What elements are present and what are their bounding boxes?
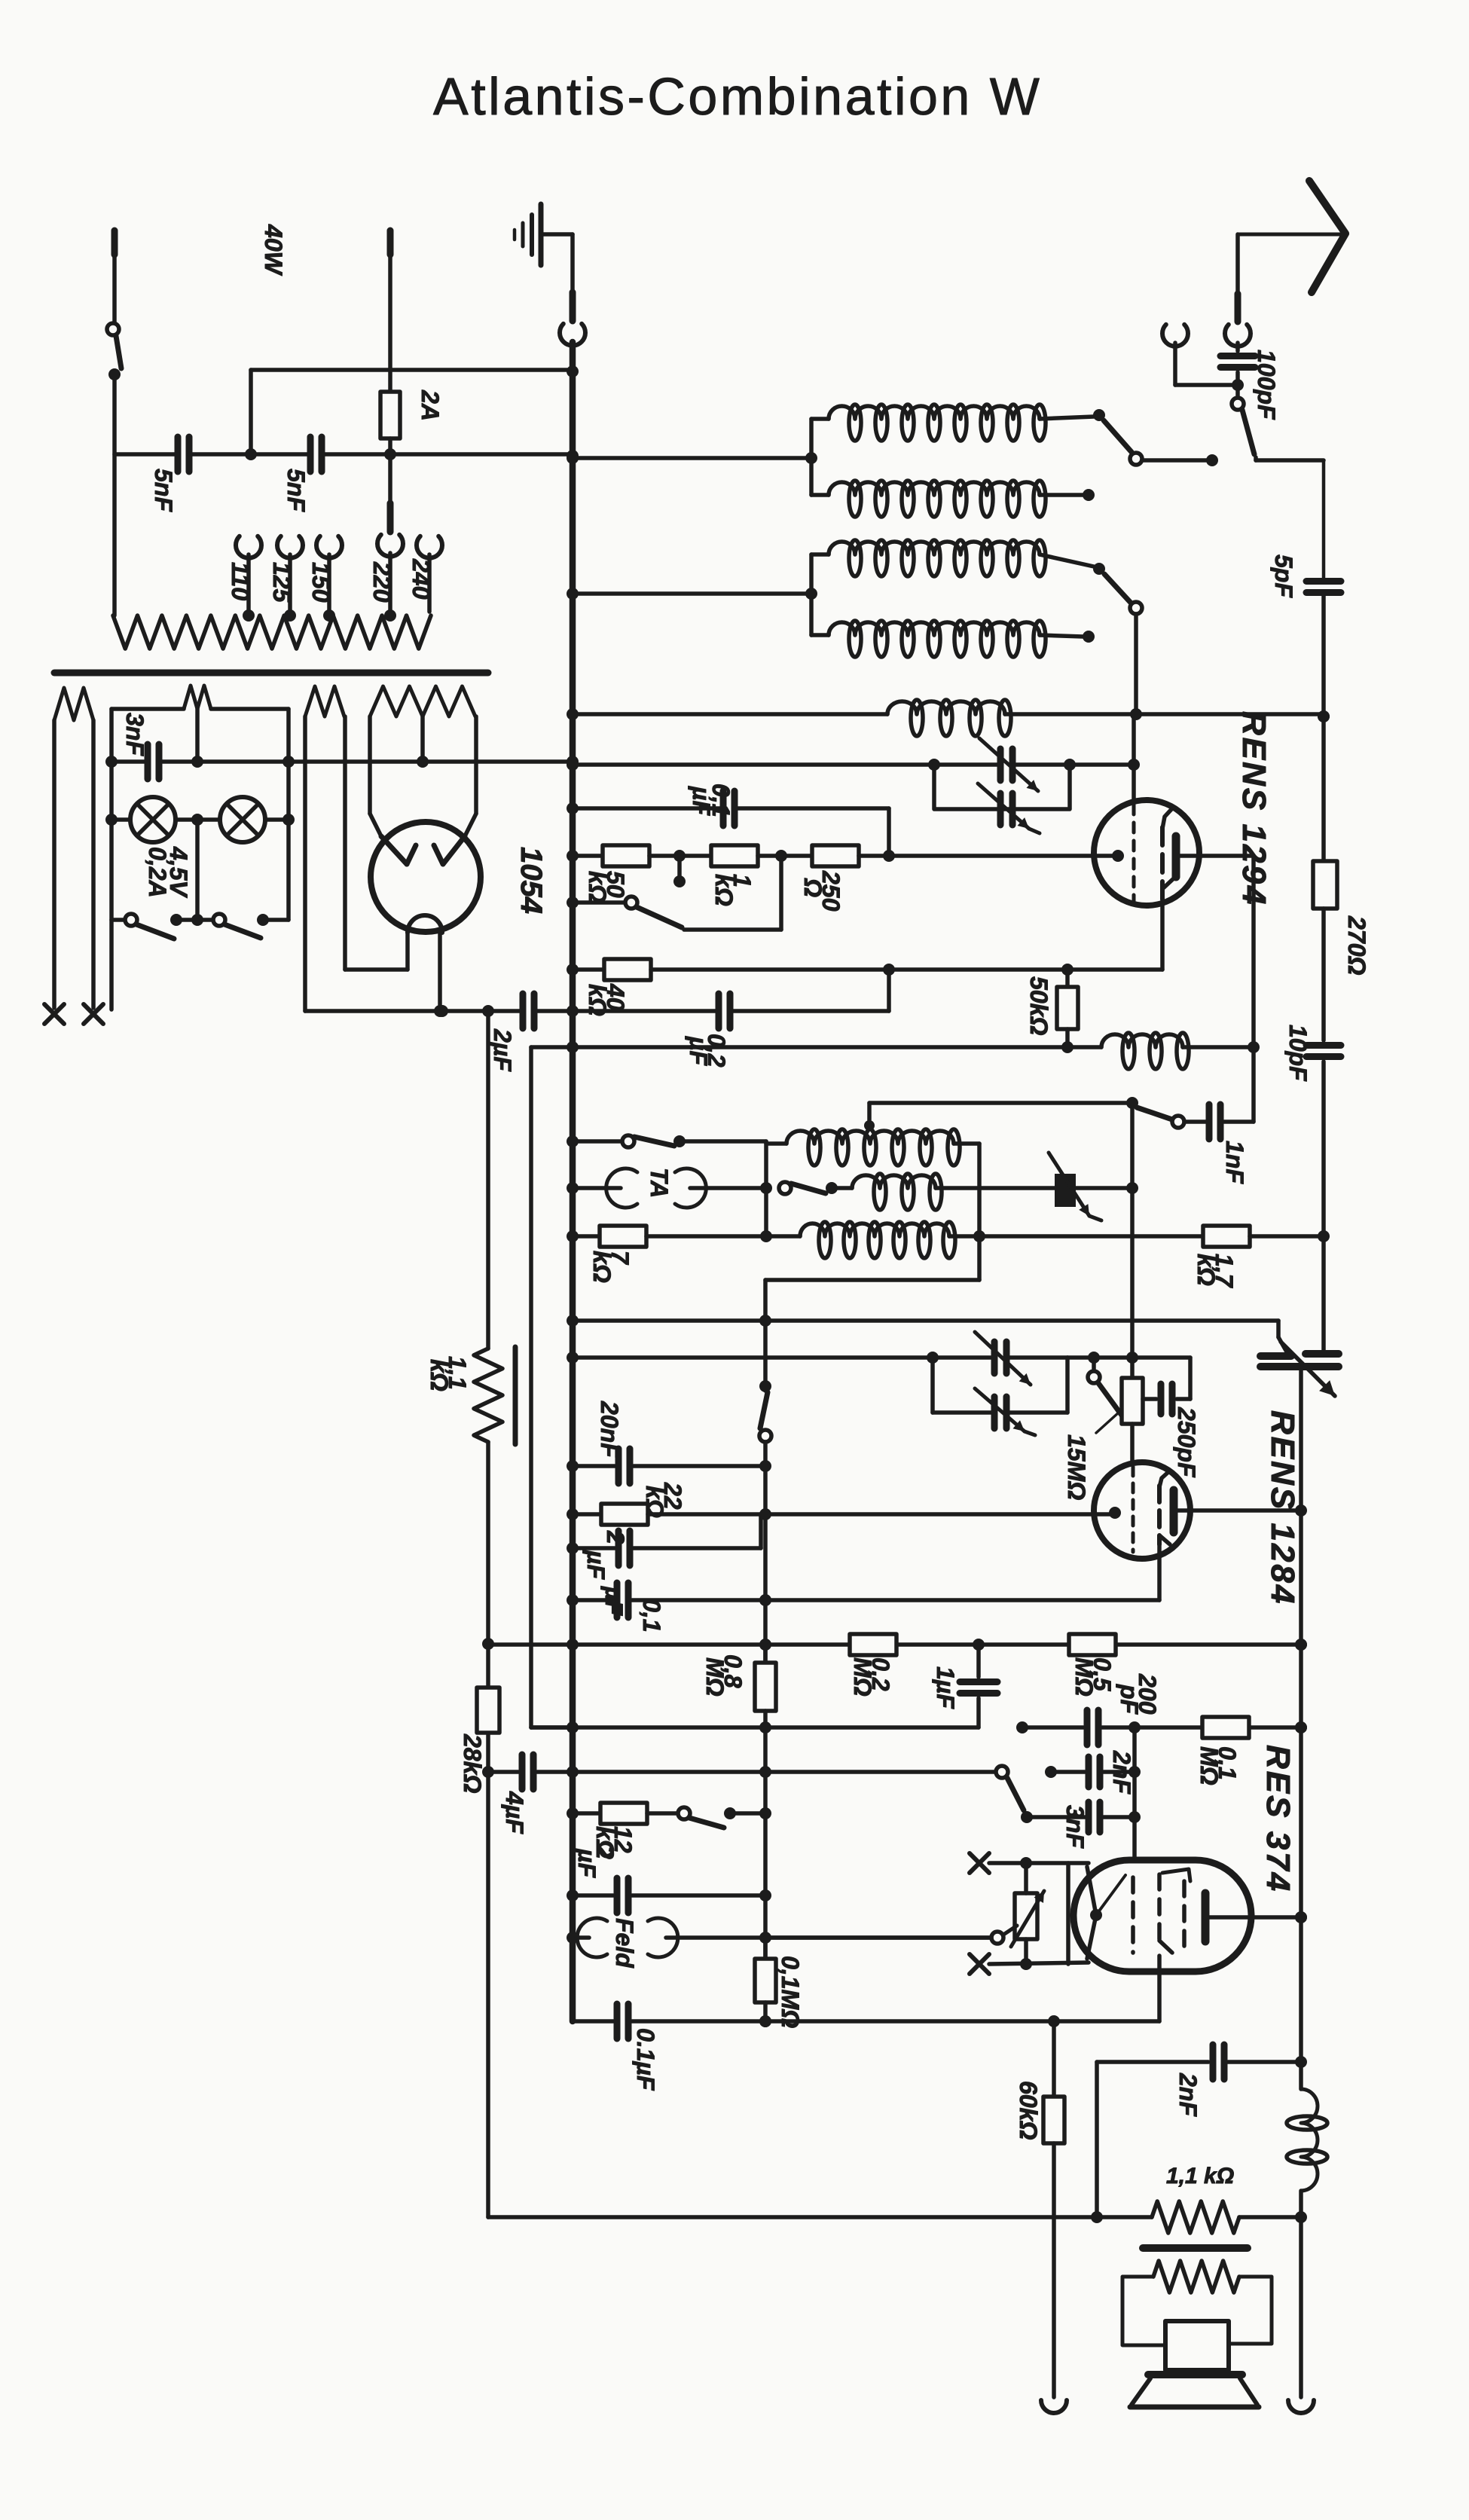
capacitor 3nF [121,713,159,779]
antenna selector switch [1232,398,1254,454]
hum pot slider [991,1926,1017,1944]
capacitor 20nF [596,1401,630,1483]
svg-text:TA: TA [646,1168,673,1198]
tap 150 [307,536,342,622]
wire antenna to right bus [1256,457,1324,579]
tube 1284 screen [1159,1471,1170,1544]
wire row 1518 [766,1141,786,1146]
capacitor 4uF [501,1755,533,1834]
svg-text:1nF: 1nF [1221,1141,1248,1184]
wire row 491 [251,365,579,454]
tuning capacitor gang a [933,1332,1067,1385]
tap 110 [227,536,261,622]
tube 374 grid [1131,1877,1135,1953]
wire row 2293 left [531,1721,979,1733]
svg-text:0,2A: 0,2A [144,847,171,898]
resistor 60k [1015,2021,1064,2397]
capacitor 1nF [1184,1104,1254,1184]
svg-text:MΩ: MΩ [849,1657,876,1697]
svg-text:40W: 40W [260,224,287,276]
tube RENS 1284 [1094,1462,1190,1559]
wire row 2572 b [666,1932,991,1944]
terminal hook right [1288,2400,1314,2413]
svg-text:kΩ: kΩ [588,1251,615,1283]
capacitor 100pF [1220,343,1280,420]
wire row 1073 [567,802,889,856]
tone switch [996,1766,1057,1823]
ground chassis [515,204,573,265]
resistor 0,8M [701,1645,776,1959]
wire row 2010 [567,1508,601,1520]
label RENS 1294 [1235,711,1272,906]
svg-text:Feld: Feld [611,1918,638,1969]
resistor 7k [588,1226,646,1283]
speaker body [1165,2321,1229,2370]
antenna coil L1b [811,481,1095,517]
tube 374 filament [1087,1867,1125,1959]
rectifier tube 1054 [371,822,481,932]
wire row 2683 [573,1956,1159,2027]
earth socket [1162,325,1238,385]
hum potentiometer [1011,1857,1044,1970]
svg-text:pF: pF [1116,1684,1143,1715]
wire left coil riser [764,1141,768,1236]
dial lamp switch b [176,914,289,938]
wire row 2055 [567,1516,761,1554]
potentiometer 1,1k [426,1347,515,1444]
speaker pole piece [1143,2244,1248,2252]
wire speaker right [1299,2217,1303,2397]
svg-text:2A: 2A [417,389,444,421]
wire filament row 1342 [305,1005,579,1017]
wire row 2407 b [647,1807,771,1828]
svg-text:4µF: 4µF [501,1791,528,1834]
label 4,5V 0,2A [144,846,192,898]
tube 1054 cathode wires [345,927,440,1011]
tube 1294 grid [1132,805,1136,901]
resistor 40k [584,959,651,1016]
svg-text:110: 110 [227,562,254,600]
resistor 0,1M grid RES374 [1196,1717,1249,1785]
capacitor 2uF filter [489,994,534,1072]
output choke [1287,2089,1327,2223]
label 1054 [515,847,548,914]
wire row 1802 [567,1352,1190,1413]
antenna coil L1a [811,405,1105,495]
trimmer capacitor 1 [979,738,1038,791]
wire left rail x648 [482,1011,494,2217]
terminal X right [84,1004,103,1024]
resistor 12k [591,1803,647,1859]
resistor 50k volume [584,845,649,903]
wire row 1641 b [646,1230,800,1242]
wire row 2352 AVC [488,1766,996,1778]
band switch blade 2 [1104,574,1142,714]
antenna coil L2a [811,540,1105,635]
tube 1284 grid lead dot [1109,1507,1121,1519]
switch 40k [567,897,682,927]
tube 374 suppressor [1182,1881,1186,1946]
wire row 948 [567,700,1330,736]
capacitor 2uF bias [573,1845,628,1913]
terminal hook left [1041,2400,1067,2413]
HF choke [1101,1033,1260,1069]
antenna plug [1225,294,1251,347]
wire row 1753 [567,1315,1288,1355]
svg-text:1054: 1054 [515,847,548,914]
speaker cone [1130,2375,1259,2407]
wire row 2183 [488,1639,1307,1651]
tube RENS 1294 [1094,800,1199,906]
wire left rail x705 [531,1047,573,1727]
secondary winding 2 [305,686,345,1011]
wire TA row 1577 [567,1182,621,1194]
wire row 2572 [567,1932,589,1944]
svg-text:0.1µF: 0.1µF [632,2028,659,2091]
svg-text:Atlantis-Combination W: Atlantis-Combination W [433,67,1042,126]
wire lamp middle [195,820,200,920]
wire ground to bus [560,234,585,346]
wire row 2943 [488,2215,1301,2219]
wire row 2124 [567,1544,1159,1606]
svg-text:2nF: 2nF [1174,2073,1202,2117]
speaker field winding [1153,2261,1239,2292]
terminal X left [44,1004,64,1024]
wire fuse to 220 tap [377,454,403,622]
svg-text:10pF: 10pF [1284,1025,1312,1082]
IF coil L3b [852,1174,1132,1210]
pilot lamp 2 [220,797,289,842]
variable capacitor main tuning [1260,1342,1339,1396]
filament terminal X top [970,1853,1089,1964]
tube 374 screen [1159,1869,1190,1953]
grid line x1503 osc [1126,1103,1138,1378]
svg-text:125: 125 [268,562,295,603]
wire mains left [112,374,117,615]
pilot lamp winding [111,686,289,709]
wire right coil riser [759,1144,979,1386]
switch 1nF [1137,1107,1184,1128]
wire choke row 1390 [531,1041,1101,1053]
switch 40k contact [673,856,686,887]
tap 240 [408,536,442,612]
right bus upper [1318,595,1330,861]
capacitor 2nF feedback [1097,2045,1301,2117]
svg-text:100pF: 100pF [1253,350,1280,420]
svg-text:RES 374: RES 374 [1260,1745,1296,1893]
wire row 1136 b [649,850,711,862]
right bus lower [1321,1061,1326,1351]
svg-text:2µF: 2µF [489,1028,516,1072]
wire row 1136 c [758,850,812,862]
wire row 1136 d [859,850,1119,862]
resistor 1,1k output [1152,2164,1239,2233]
capacitor 2nF tone [1051,1750,1141,1795]
lamp box right side [286,709,291,920]
wire switch 40k to node [684,859,781,930]
tube 374 anode [1205,1893,1307,1941]
wire x1016 upper [759,1380,771,1663]
resistor 250 [799,845,859,912]
resistor 1,7k [1193,1226,1250,1289]
antenna [1238,181,1345,294]
resistor 0,2M [849,1634,896,1697]
svg-text:2nF: 2nF [1108,1750,1135,1795]
svg-text:5pF: 5pF [1270,554,1297,598]
tube RES 374 [1073,1860,1251,1972]
speaker magnet frame [1122,2277,1272,2345]
antenna coil L2b [811,621,1095,657]
capacitor 3nF tone [1027,1802,1141,1849]
svg-text:3nF: 3nF [121,713,148,756]
wire feed coil group 1 [567,452,817,464]
trimmer loop [934,765,1070,809]
svg-text:kΩ: kΩ [426,1359,453,1391]
resistor 50k decoupling [1025,970,1078,1053]
resistor 270 [1313,861,1370,975]
svg-text:1µF: 1µF [932,1666,959,1709]
label tap 220 [368,561,395,603]
svg-text:5nF: 5nF [282,469,310,512]
transformer primary winding [113,615,431,649]
wire feedback drop [1091,2062,1103,2223]
fuse 2A [380,231,444,454]
svg-text:1,1 kΩ: 1,1 kΩ [1166,2164,1234,2189]
svg-text:220: 220 [368,561,395,603]
wire row 2293 right [1016,1721,1307,1733]
capacitor 5nF line filter 1 [150,437,189,512]
wire row 1287 b [651,901,1162,1011]
wire row 1641 d [1250,1234,1324,1239]
wire heater row 1011 [105,756,579,768]
tap 125 [268,536,303,622]
wire anode riser [1295,1370,1307,2089]
field coil connector Feld [577,1918,678,1969]
wire feed coil group 2 [567,588,817,600]
svg-text:Ω: Ω [799,878,826,897]
wire row 1136 a [567,850,603,862]
tube 1284 grid [1132,1467,1135,1552]
wire grid line RENS1294 [1132,714,1136,802]
svg-text:20nF: 20nF [596,1401,623,1459]
svg-text:kΩ: kΩ [1193,1254,1220,1286]
wire row 2516 [567,1889,771,1901]
capacitor 1uF AVC [932,1645,997,1727]
right bus middle [1318,909,1330,1242]
capacitor 5pF [1270,554,1341,598]
wire row 1946 [567,1460,765,1472]
wire row 1342 right [573,1009,889,1013]
svg-text:µF: µF [600,1586,628,1616]
iron core trimmer [1049,1153,1101,1220]
resistor 0,1M bias [755,1938,804,2028]
tube 1284 anode [1174,1490,1190,1532]
title Atlantis-Combination W [433,67,1042,126]
svg-text:3nF: 3nF [1061,1805,1089,1849]
svg-text:150: 150 [307,562,334,603]
capacitor 200pF [1087,1673,1161,1745]
dial lamp switch a [111,914,182,939]
wire anode RENS1284 out [1190,1508,1301,1513]
IF coil L3c [800,1222,985,1258]
svg-text:µF: µF [688,786,715,816]
wire row 603 [115,448,579,462]
svg-text:MΩ: MΩ [1196,1746,1223,1785]
tube 1294 anode [1176,836,1199,877]
capacitor 0,1uF [688,783,734,826]
capacitor 10pF [1284,1025,1341,1082]
capacitor 0,1uF output [617,2004,659,2091]
tube 1054 anodes [381,836,465,933]
filament terminal X bottom [970,1954,1089,1974]
svg-text:2: 2 [602,1530,629,1544]
resistor 28k [459,1688,499,1793]
tube 1294 grid lead [1112,850,1124,862]
resistor 1k [710,845,758,906]
svg-text:250pF: 250pF [1173,1407,1200,1478]
svg-text:kΩ: kΩ [584,871,611,903]
wire anode RENS1294 [1199,856,1254,1122]
main bus vertical [570,342,576,2021]
wire lamp winding centre tap [195,709,200,762]
resistor 0,5M [1069,1634,1116,1697]
svg-text:µF: µF [582,1550,609,1580]
wire slider row [765,1935,991,1940]
svg-text:µF: µF [573,1848,600,1878]
svg-text:5nF: 5nF [150,469,177,512]
heater winding with X terminals [54,688,93,1008]
tube 1294 screen [1162,807,1174,901]
svg-text:270Ω: 270Ω [1343,915,1370,975]
grid line RES374 [1132,1727,1137,1859]
svg-text:15MΩ: 15MΩ [1063,1434,1090,1500]
svg-text:MΩ: MΩ [1070,1657,1098,1697]
capacitor 0,1uF cathode [600,1583,665,1632]
svg-text:50kΩ: 50kΩ [1025,976,1052,1035]
mains switch S1 [107,231,121,380]
wire row 1641 c [979,1234,1203,1239]
svg-text:0,1: 0,1 [638,1599,665,1632]
wire row 2010 grid [648,1512,1118,1517]
svg-text:MΩ: MΩ [701,1657,728,1697]
wire row 1015 [567,759,1140,771]
HV winding [370,686,475,762]
coil tap wire [869,1097,1138,1126]
tuning capacitor gang b [933,1388,1067,1435]
svg-text:kΩ: kΩ [710,874,738,906]
label RES 374 [1260,1745,1296,1893]
trimmer capacitor 2 [978,783,1040,833]
wire TA row b [690,1182,852,1194]
resistor 22k [601,1482,686,1525]
pickup TA socket [606,1168,707,1208]
HV winding legs [370,716,476,836]
svg-text:RENS 1284: RENS 1284 [1264,1410,1301,1605]
transformer core [54,670,488,677]
switch grid leak [1088,1358,1122,1416]
resistor 15M [1063,1378,1143,1500]
svg-text:60kΩ: 60kΩ [1015,2081,1042,2140]
band switch blade 1 [1104,420,1218,466]
svg-text:240: 240 [408,558,435,600]
wire row 1641 left [567,1230,600,1242]
pilot lamp 1 [111,797,220,842]
junction dots lamp row [105,814,295,826]
IF coil L3a [786,1120,979,1165]
svg-text:0,1MΩ: 0,1MΩ [777,1956,804,2028]
svg-text:28kΩ: 28kΩ [459,1733,486,1793]
capacitor 2uF cathode [582,1530,630,1580]
lamp box left side [109,709,114,1010]
wire row 1515 gram switch [567,1135,766,1147]
wire row 2407 [567,1807,600,1819]
label 40W [260,224,287,276]
label RENS 1284 [1264,1410,1301,1605]
capacitor 0,2uF [685,994,730,1068]
capacitor 250pF [1143,1358,1200,1478]
capacitor 5nF line filter 2 [282,437,322,512]
svg-text:µF: µF [685,1036,712,1066]
wire row 1287 [567,964,604,976]
